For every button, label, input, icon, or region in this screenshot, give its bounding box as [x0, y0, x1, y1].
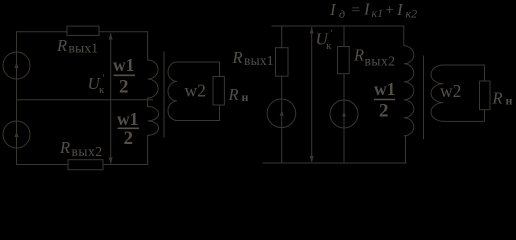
- resistor R_vyh2 (left): [68, 160, 103, 170]
- voltage arrow U'k (right circuit): [311, 28, 313, 162]
- current source G4: [330, 100, 358, 128]
- branch R_vyh2 lower lead through source (right circuit): [343, 74, 345, 163]
- branch R_vyh1 upper lead (right circuit): [281, 26, 283, 48]
- resistor R_n (left): [213, 77, 224, 106]
- svg-text:R: R: [353, 46, 364, 65]
- svg-text:R: R: [492, 89, 503, 108]
- transformer T1 primary winding w1/2 upper: [148, 32, 159, 98]
- current source G1: [3, 52, 30, 79]
- transformer T1 primary center tap segment: [147, 98, 149, 107]
- label R_vyh2 (right): [353, 46, 395, 69]
- svg-text:+: +: [385, 3, 395, 19]
- current source G2 arrowhead: [15, 132, 19, 138]
- svg-text:вых2: вых2: [365, 54, 396, 69]
- wire top (right circuit): [272, 25, 404, 27]
- transformer T2 core: [423, 56, 425, 139]
- svg-text:к1: к1: [372, 6, 384, 20]
- voltage arrow U'k (left circuit): [110, 34, 112, 164]
- svg-text:=: =: [351, 3, 361, 19]
- svg-text:I: I: [363, 0, 371, 19]
- svg-text:I: I: [396, 0, 404, 19]
- wire secondary bottom lead (left circuit): [177, 105, 220, 121]
- current source G3 arrowhead: [280, 110, 284, 116]
- svg-text:′: ′: [103, 74, 105, 85]
- label w2 (right): [440, 81, 461, 101]
- current source G4 arrowhead: [342, 111, 346, 117]
- transformer T2 secondary winding w2: [431, 65, 444, 121]
- svg-text:R: R: [59, 138, 70, 157]
- label w1/2 upper (left): [113, 55, 135, 97]
- current source G1 arrowhead: [15, 63, 19, 69]
- label w1/2 (right): [374, 79, 395, 121]
- svg-text:w2: w2: [440, 81, 461, 101]
- svg-text:вых2: вых2: [72, 144, 103, 159]
- svg-text:R: R: [232, 48, 243, 67]
- label U'k (left): [88, 74, 106, 97]
- svg-text:w1: w1: [374, 79, 395, 99]
- current source G2: [3, 121, 30, 148]
- wire left vertical (left circuit): [16, 32, 18, 165]
- svg-text:I: I: [329, 0, 337, 19]
- resistor R_vyh2 (right): [338, 47, 350, 74]
- svg-text:w2: w2: [185, 80, 206, 100]
- svg-text:к2: к2: [406, 7, 418, 21]
- svg-text:к: к: [99, 84, 105, 96]
- wire top right segment (left circuit): [99, 31, 148, 33]
- label U'k (right): [316, 29, 333, 52]
- svg-text:2: 2: [119, 76, 129, 97]
- svg-text:R: R: [228, 85, 239, 104]
- transformer T1 primary winding w1/2 lower: [148, 107, 159, 165]
- wire top (left circuit): [17, 31, 68, 33]
- transformer T1 core: [163, 52, 165, 137]
- wire secondary bottom lead (right circuit): [444, 110, 485, 122]
- svg-text:вых1: вых1: [69, 41, 99, 56]
- branch R_vyh1 lower lead through source (right circuit): [281, 76, 283, 163]
- svg-text:′: ′: [331, 29, 333, 40]
- label R_vyh2 (left): [59, 138, 102, 159]
- svg-text:н: н: [506, 94, 513, 108]
- label R_n (right): [492, 89, 513, 108]
- label Ig = Ik1 + Ik2: [329, 0, 417, 21]
- label R_n (left): [228, 85, 249, 104]
- wire bottom right segment (left circuit): [103, 164, 148, 166]
- resistor R_vyh1 (left): [67, 26, 99, 35]
- current source G3: [267, 99, 296, 128]
- svg-text:2: 2: [379, 100, 389, 121]
- label R_vyh1 (right): [232, 48, 274, 68]
- resistor R_n (right): [480, 81, 491, 110]
- svg-text:R: R: [56, 36, 67, 55]
- wire bottom (right circuit): [263, 162, 406, 164]
- svg-text:д: д: [339, 7, 345, 21]
- svg-text:н: н: [242, 90, 249, 104]
- label R_vyh1 (left): [56, 36, 98, 55]
- label w2 (left): [185, 80, 206, 100]
- svg-text:к: к: [326, 40, 332, 52]
- label w1/2 lower (left): [117, 109, 139, 149]
- svg-text:2: 2: [124, 128, 134, 149]
- branch R_vyh2 upper lead (right circuit): [343, 26, 345, 47]
- svg-text:w1: w1: [117, 109, 138, 129]
- transformer T2 primary winding w1/2: [404, 26, 414, 163]
- wire bottom left segment (left circuit): [17, 164, 69, 166]
- svg-text:w1: w1: [113, 55, 134, 75]
- wire middle (left circuit, center tap): [17, 99, 153, 101]
- transformer T1 secondary winding w2: [168, 62, 177, 121]
- svg-text:вых1: вых1: [244, 53, 274, 68]
- wire secondary top lead (left circuit): [177, 62, 220, 77]
- resistor R_vyh1 (right): [276, 48, 289, 76]
- wire secondary top lead (right circuit): [444, 65, 485, 81]
